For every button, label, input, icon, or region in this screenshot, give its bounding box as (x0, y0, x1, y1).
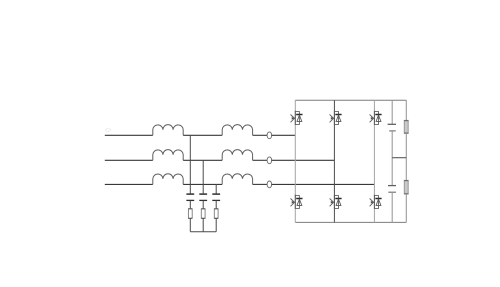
wire phase C to bridge (271, 183, 374, 185)
filter capacitor Cfa (186, 194, 194, 200)
damping resistor Rdb (201, 209, 205, 219)
damping resistor Rda (188, 209, 192, 219)
balancing resistor R2 (404, 180, 408, 194)
filter capacitor Cfb (199, 194, 207, 200)
IGBT S2 (lower leg C) (370, 195, 382, 209)
IGBT S4 (lower leg A) (291, 195, 303, 209)
inductor L1c (153, 174, 183, 185)
bridge leg B wire (333, 100, 335, 222)
wire filter branch A drop (189, 135, 191, 193)
wire phase C left (105, 183, 153, 185)
DC capacitor Cd2 (388, 186, 396, 193)
sensor/terminal B (267, 157, 272, 164)
wire DC cap branch upper (391, 100, 393, 124)
bridge leg A wire (294, 100, 296, 222)
bridge leg C wire (373, 100, 375, 222)
wire DC resistor branch upper (405, 100, 407, 120)
sensor/terminal C (267, 181, 272, 188)
wire Cfa to Rda (189, 200, 191, 208)
damping resistor Rdc (214, 209, 218, 219)
wire phase A mid (183, 134, 222, 136)
DC bottom bus wire (295, 221, 406, 223)
IGBT S1 (upper leg A) (291, 111, 303, 125)
DC top bus wire (295, 99, 406, 101)
wire phase A to sensor (253, 134, 267, 136)
DC capacitor Cd1 (388, 124, 396, 131)
inductor L2a (222, 125, 252, 136)
wire phase B left (105, 159, 153, 161)
inductor L1a (153, 125, 183, 136)
inductor L2c (222, 174, 252, 185)
wire phase C to sensor (253, 183, 267, 185)
wire phase A left (105, 134, 153, 136)
wire Cfc to Rdc (215, 200, 217, 208)
IGBT S5 (upper leg C) (370, 111, 382, 125)
wire phase A to bridge (271, 134, 295, 136)
wire R1 to midpoint (405, 133, 407, 180)
IGBT S6 (lower leg B) (330, 195, 342, 209)
wire phase B to bridge (271, 159, 334, 161)
faint source mark (105, 129, 111, 132)
wire phase C mid (183, 183, 222, 185)
wire phase B to sensor (253, 159, 267, 161)
wire phase B mid (183, 159, 222, 161)
wire DC midpoint tie (392, 157, 406, 159)
wire DC cap branch lower (391, 192, 393, 222)
balancing resistor R1 (404, 120, 408, 133)
wire filter branch C drop (215, 184, 217, 193)
wire Rdc to star bus (215, 218, 217, 231)
filter capacitor Cfc (212, 194, 220, 200)
wire Rda to star bus (189, 218, 191, 231)
wire Rdb to star bus (202, 218, 204, 231)
wire Cfb to Rdb (202, 200, 204, 208)
wire R2 to bottom bus (405, 194, 407, 222)
star-point bus wire (190, 231, 216, 233)
IGBT S3 (upper leg B) (330, 111, 342, 125)
inductor L2b (222, 150, 252, 161)
wire DC cap branch middle (391, 131, 393, 185)
sensor/terminal A (267, 132, 272, 139)
wire filter branch B drop (202, 160, 204, 193)
inductor L1b (153, 150, 183, 161)
